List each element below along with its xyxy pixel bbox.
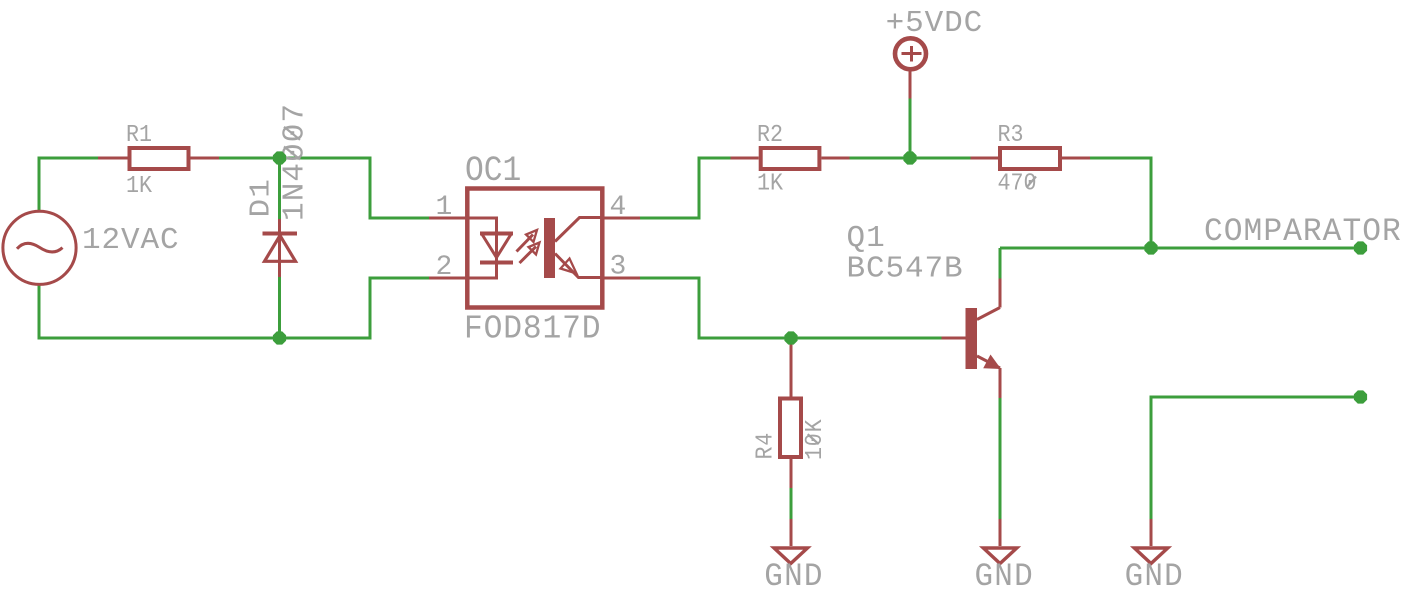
wire D1 anode vertical green top bbox=[278, 158, 281, 220]
node junction R4 top bbox=[784, 331, 797, 344]
wire collector up to comparator wire bbox=[999, 248, 1002, 279]
svg-text:GND: GND bbox=[975, 558, 1034, 595]
svg-text:R3: R3 bbox=[998, 121, 1024, 148]
node end dot second output bbox=[1354, 390, 1367, 403]
svg-text:1: 1 bbox=[436, 192, 453, 223]
wire emitter down green bbox=[999, 397, 1002, 519]
node junction D1 top bbox=[273, 151, 286, 164]
wire comparator horizontal bbox=[1000, 247, 1361, 250]
OC1 internal LED bbox=[467, 218, 513, 278]
svg-text:COMPARATOR: COMPARATOR bbox=[1204, 212, 1402, 250]
node junction comparator bbox=[1144, 241, 1157, 254]
OC1 internal phototransistor bbox=[544, 218, 603, 279]
supply +5VDC bbox=[895, 38, 926, 98]
svg-text:OC1: OC1 bbox=[465, 151, 521, 191]
svg-text:12VAC: 12VAC bbox=[82, 223, 180, 258]
slashed zero marks 1N4007 bbox=[284, 127, 300, 160]
slashed zero mark 10K bbox=[808, 434, 819, 444]
svg-text:D1: D1 bbox=[245, 178, 278, 218]
node junction D1 bottom bbox=[273, 331, 286, 344]
wire R4 bottom green bbox=[790, 488, 793, 519]
diode D1 bbox=[263, 219, 298, 277]
OC1 pin4 stub bbox=[603, 217, 641, 220]
wire +5VDC supply drop bbox=[909, 99, 912, 159]
node end dot comparator right bbox=[1354, 241, 1367, 254]
svg-text:BC547B: BC547B bbox=[847, 252, 964, 287]
node junction +5V rail bbox=[903, 151, 916, 164]
svg-text:+5VDC: +5VDC bbox=[886, 6, 984, 41]
ground GND3 under second output bbox=[1134, 519, 1168, 564]
wire left bottom from source down to bottom rail bbox=[39, 284, 279, 338]
svg-text:3: 3 bbox=[610, 252, 627, 283]
OC1 internal light arrows bbox=[517, 230, 540, 263]
svg-text:1K: 1K bbox=[757, 170, 783, 197]
wire D1 cathode vertical green bottom bbox=[278, 276, 281, 338]
svg-text:R1: R1 bbox=[126, 121, 152, 148]
resistor R3 bbox=[971, 148, 1091, 169]
svg-text:R4: R4 bbox=[752, 432, 779, 460]
slashed zero mark 470 bbox=[1027, 177, 1037, 188]
wire OC1 pin4 to R2 bbox=[640, 158, 731, 218]
wire OC1 pin3 down to base rail bbox=[640, 278, 942, 338]
svg-text:4: 4 bbox=[610, 192, 627, 223]
svg-text:R2: R2 bbox=[757, 121, 783, 148]
transistor Q1 bbox=[942, 279, 1002, 399]
OC1 pin1 stub bbox=[429, 217, 467, 220]
svg-text:1K: 1K bbox=[126, 172, 152, 199]
wire R3 right down to comparator node bbox=[1090, 158, 1151, 248]
wire top-left net from source to R1 bbox=[39, 158, 98, 211]
ground GND2 under Q1 emitter bbox=[983, 519, 1017, 564]
wire second output to right dot and down to GND bbox=[1151, 397, 1361, 519]
svg-text:2: 2 bbox=[436, 252, 453, 283]
svg-text:GND: GND bbox=[764, 558, 823, 595]
wire R2 right to R3 left through +5V junction bbox=[850, 157, 971, 160]
ac source V1 12VAC bbox=[3, 211, 76, 284]
svg-text:FOD817D: FOD817D bbox=[464, 310, 601, 348]
wire R1 right to D1 top junction to OC1 pin1 corner bbox=[219, 158, 429, 218]
resistor R1 bbox=[98, 148, 219, 169]
OC1 pin2 stub bbox=[429, 277, 467, 280]
optocoupler OC1 box bbox=[467, 189, 602, 308]
resistor R4 bbox=[780, 341, 801, 488]
resistor R2 bbox=[731, 148, 850, 169]
wire bottom rail D1 junction to OC1 pin2 corner bbox=[279, 278, 429, 338]
svg-text:GND: GND bbox=[1125, 558, 1184, 595]
OC1 pin3 stub bbox=[603, 277, 641, 280]
ground GND1 under R4 bbox=[774, 519, 808, 564]
